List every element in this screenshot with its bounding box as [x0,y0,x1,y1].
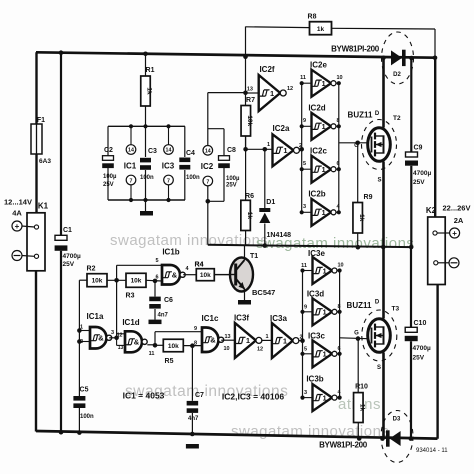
svg-text:IC3c: IC3c [308,332,325,341]
svg-text:BYW81PI-200: BYW81PI-200 [319,441,368,450]
svg-text:K2: K2 [426,206,437,215]
svg-text:IC1c: IC1c [202,314,219,323]
svg-text:IC3a: IC3a [270,314,287,323]
svg-text:T3: T3 [392,306,400,313]
svg-text:5: 5 [155,258,158,264]
svg-text:BC547: BC547 [252,288,275,297]
svg-text:7: 7 [167,178,170,184]
svg-text:BUZ11: BUZ11 [347,301,372,310]
svg-text:T2: T2 [393,115,401,122]
svg-text:R4: R4 [195,262,204,269]
svg-text:12: 12 [257,347,263,353]
svg-text:G: G [354,331,359,337]
svg-text:12...14V: 12...14V [4,198,32,207]
svg-text:C1: C1 [63,227,72,234]
svg-text:14: 14 [128,148,134,154]
svg-text:100n: 100n [186,175,200,181]
svg-text:BUZ11: BUZ11 [348,111,373,120]
svg-text:IC2e: IC2e [310,61,327,70]
svg-text:1: 1 [322,122,326,131]
svg-text:7: 7 [130,178,133,184]
svg-text:D: D [375,111,380,117]
svg-text:IC3e: IC3e [308,249,325,258]
svg-text:100n: 100n [140,175,154,181]
svg-text:5: 5 [303,161,306,167]
svg-text:IC2: IC2 [201,162,214,171]
svg-text:13: 13 [118,345,124,351]
svg-text:R7: R7 [246,97,255,104]
svg-text:8: 8 [194,341,197,347]
svg-text:C9: C9 [414,145,423,152]
svg-text:1k: 1k [246,212,253,220]
svg-text:1k: 1k [359,404,366,412]
svg-text:25V: 25V [413,179,425,186]
svg-text:C10: C10 [414,320,427,327]
svg-text:3: 3 [304,390,307,396]
svg-text:1: 1 [246,336,250,345]
svg-text:10: 10 [337,75,343,81]
svg-text:11: 11 [300,75,306,81]
svg-text:C5: C5 [80,387,89,394]
svg-text:11: 11 [149,351,155,357]
svg-text:3: 3 [303,204,306,210]
svg-text:4n7: 4n7 [188,416,199,422]
svg-text:7: 7 [206,179,209,185]
svg-text:+: + [15,222,20,231]
svg-text:12: 12 [287,86,293,92]
svg-text:14: 14 [205,149,211,155]
svg-text:IC2a: IC2a [273,124,290,133]
svg-text:25V: 25V [63,261,75,268]
svg-text:13: 13 [224,334,230,340]
svg-text:4700µ: 4700µ [413,170,431,177]
svg-text:11: 11 [301,263,307,269]
svg-text:IC2f: IC2f [259,65,274,74]
svg-text:D3: D3 [393,417,401,423]
svg-text:100µ: 100µ [103,174,117,180]
svg-text:1: 1 [270,89,274,98]
svg-text:F1: F1 [37,117,45,124]
svg-text:6: 6 [338,346,341,352]
svg-text:C8: C8 [227,147,236,154]
svg-text:1: 1 [322,79,326,88]
svg-text:8: 8 [338,304,341,310]
svg-text:22...26V: 22...26V [443,204,471,213]
svg-text:C7: C7 [195,392,204,399]
svg-text:25V: 25V [226,183,237,189]
svg-text:10k: 10k [246,115,253,126]
svg-text:IC2,IC3 = 40106: IC2,IC3 = 40106 [222,392,284,402]
svg-text:R5: R5 [165,358,174,365]
svg-text:9: 9 [303,118,306,124]
svg-text:100n: 100n [80,414,94,420]
svg-text:10: 10 [338,263,344,269]
svg-text:IC1: IC1 [124,162,137,171]
svg-text:6A3: 6A3 [39,158,51,165]
svg-text:1: 1 [80,325,83,331]
svg-text:IC3d: IC3d [307,290,324,299]
svg-text:6: 6 [337,161,340,167]
svg-text:D1: D1 [266,199,275,206]
svg-text:1: 1 [323,308,327,317]
svg-text:1: 1 [283,146,287,155]
svg-text:1: 1 [283,336,287,345]
svg-text:1: 1 [323,266,327,275]
svg-text:&: & [134,337,140,346]
svg-text:C2: C2 [104,147,113,154]
svg-text:IC3b: IC3b [306,375,323,384]
svg-text:S: S [377,178,381,184]
svg-text:10k: 10k [92,278,103,285]
svg-text:S: S [377,365,381,371]
svg-text:1: 1 [323,393,327,402]
svg-text:1k: 1k [317,26,325,33]
svg-text:IC2c: IC2c [310,147,327,156]
svg-text:1: 1 [267,142,270,148]
svg-text:C4: C4 [186,150,195,157]
svg-text:10k: 10k [131,278,142,285]
svg-text:R3: R3 [126,293,135,300]
svg-text:4700µ: 4700µ [413,345,431,352]
svg-text:R6: R6 [245,193,254,200]
svg-text:R8: R8 [308,14,317,21]
svg-text:25V: 25V [103,182,114,188]
svg-text:C3: C3 [148,148,157,155]
svg-text:9: 9 [304,304,307,310]
svg-text:K1: K1 [38,202,49,211]
svg-text:8: 8 [337,118,340,124]
svg-text:&: & [172,270,178,279]
svg-text:4n7: 4n7 [158,313,169,319]
svg-text:1: 1 [322,208,326,217]
svg-text:&: & [210,335,216,344]
svg-text:IC1b: IC1b [162,248,179,257]
svg-text:13: 13 [247,87,253,93]
svg-text:&: & [98,333,104,342]
svg-text:IC1a: IC1a [87,312,104,321]
svg-text:C6: C6 [164,297,173,304]
svg-text:25V: 25V [413,355,425,362]
svg-text:IC2b: IC2b [308,190,325,199]
svg-text:10k: 10k [200,272,211,279]
svg-text:+: + [452,229,457,238]
svg-text:6: 6 [155,275,158,281]
svg-text:3: 3 [111,330,114,336]
svg-text:D2: D2 [393,72,401,78]
svg-text:R10: R10 [355,384,368,391]
svg-text:IC3: IC3 [162,162,175,171]
svg-text:1: 1 [265,334,268,340]
svg-text:14: 14 [166,148,172,154]
svg-text:BYW81PI-200: BYW81PI-200 [331,45,380,54]
svg-text:T1: T1 [250,253,258,260]
svg-text:100µ: 100µ [226,176,240,182]
svg-text:D: D [375,300,380,306]
svg-text:1k: 1k [358,214,365,222]
svg-text:1N4148: 1N4148 [267,232,292,239]
svg-text:4A: 4A [12,208,22,217]
svg-text:1: 1 [323,350,327,359]
svg-text:IC2d: IC2d [308,104,325,113]
svg-text:2A: 2A [454,216,464,225]
svg-text:10: 10 [223,346,229,352]
svg-text:IC1d: IC1d [122,318,139,327]
svg-text:G: G [354,143,359,149]
svg-text:10k: 10k [168,343,179,350]
svg-text:IC1 = 4053: IC1 = 4053 [123,391,165,401]
svg-text:2: 2 [80,339,83,345]
svg-text:R9: R9 [364,194,373,201]
svg-text:R1: R1 [146,67,155,74]
svg-text:IC3f: IC3f [234,314,249,323]
svg-text:R2: R2 [87,266,96,273]
svg-text:9: 9 [194,326,197,332]
svg-text:1: 1 [322,165,326,174]
svg-text:934014 - 11: 934014 - 11 [416,448,448,454]
svg-text:4700µ: 4700µ [63,253,81,260]
svg-text:1k: 1k [146,87,153,95]
svg-text:12: 12 [117,333,123,339]
svg-text:5: 5 [304,346,307,352]
